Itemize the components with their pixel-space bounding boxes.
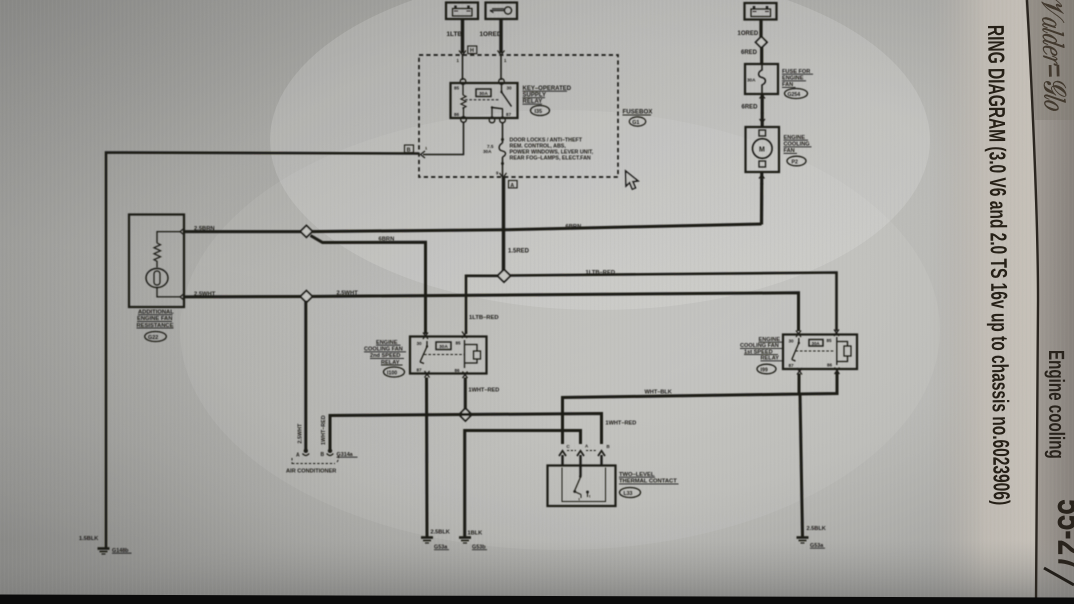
label 2.5WHT left bbox=[194, 291, 216, 297]
wire 2.5BLK relay to ground right bbox=[800, 394, 803, 537]
svg-text:1BLK: 1BLK bbox=[468, 531, 483, 537]
wire 6RED fuse to motor bbox=[760, 94, 766, 127]
svg-text:55-27: 55-27 bbox=[1049, 499, 1074, 571]
wire ground thermalA to G53b bbox=[465, 431, 581, 537]
svg-text:2.5WHT: 2.5WHT bbox=[337, 290, 359, 296]
relay I100 engine cooling fan 2nd speed bbox=[410, 332, 487, 379]
svg-text:2.5WHT: 2.5WHT bbox=[194, 291, 216, 297]
label 2.5WHT right bbox=[337, 290, 359, 296]
svg-text:I35: I35 bbox=[535, 109, 543, 115]
pin 1 labels bbox=[457, 58, 508, 63]
ground G53b bbox=[459, 538, 487, 551]
label 2.5BLK bbox=[431, 530, 450, 536]
ground G53a right bbox=[797, 538, 826, 550]
svg-text:Engine cooling: Engine cooling bbox=[1043, 350, 1068, 459]
thermal contact L33 box bbox=[548, 466, 616, 507]
text block door locks bbox=[510, 138, 594, 162]
svg-text:1WHT–RED: 1WHT–RED bbox=[321, 415, 327, 445]
label 1BLK bbox=[468, 531, 483, 537]
oval P2 bbox=[787, 156, 806, 166]
wire 1ORED key down bbox=[499, 19, 502, 53]
wire 6RED to fuse bbox=[760, 47, 763, 65]
svg-text:87: 87 bbox=[506, 112, 512, 117]
node diamond D4 bbox=[459, 408, 472, 421]
node diamond D3 bbox=[300, 291, 312, 303]
svg-text:85: 85 bbox=[456, 341, 462, 346]
svg-text:86: 86 bbox=[455, 368, 461, 373]
wire relay87 down with fuse bbox=[499, 123, 505, 178]
fuse for engine fan box bbox=[745, 64, 778, 94]
svg-text:6RED: 6RED bbox=[741, 50, 758, 56]
wire 1ORED right bbox=[759, 20, 762, 39]
chevron at fusebox bottom exit bbox=[500, 173, 507, 178]
svg-text:𝒱𝑎𝑙𝑑𝑒𝑟=𝒢𝑙𝑜: 𝒱𝑎𝑙𝑑𝑒𝑟=𝒢𝑙𝑜 bbox=[1035, 0, 1073, 112]
wire 6BRN motor to resistor bbox=[185, 224, 762, 232]
wire into relay from key bbox=[500, 55, 502, 80]
svg-text:G22: G22 bbox=[148, 335, 158, 341]
svg-text:30A: 30A bbox=[439, 344, 448, 350]
svg-text:AIR CONDITIONER: AIR CONDITIONER bbox=[286, 469, 336, 475]
svg-text:30A: 30A bbox=[479, 91, 488, 97]
svg-text:1LTB: 1LTB bbox=[447, 31, 463, 38]
label 1.5BLK bbox=[79, 536, 98, 542]
resistor box G22 bbox=[129, 215, 185, 308]
label 2.5BLK right bbox=[807, 526, 826, 532]
svg-text:P2: P2 bbox=[792, 160, 798, 166]
label 1.5RED bbox=[508, 249, 530, 255]
svg-text:30: 30 bbox=[417, 341, 423, 346]
svg-text:A: A bbox=[296, 453, 300, 459]
label 1WHT-RED vertical at AC bbox=[321, 415, 327, 445]
label 1LTB-RED vertical wire bbox=[469, 315, 499, 321]
svg-text:86: 86 bbox=[827, 363, 833, 368]
key symbol (ignition) bbox=[486, 3, 518, 20]
svg-text:6BRN: 6BRN bbox=[379, 237, 395, 243]
wire 2.5WHT down to AC bbox=[304, 301, 307, 451]
label ADDITIONAL ENGINE FAN RESISTANCE bbox=[137, 310, 175, 329]
wire 1WHT-RED relay86 to D4 bbox=[464, 378, 467, 411]
label 1WHT-RED right of corner bbox=[606, 421, 637, 427]
svg-text:30: 30 bbox=[789, 339, 795, 344]
script logo top right bbox=[1035, 0, 1073, 112]
svg-text:L33: L33 bbox=[624, 491, 633, 497]
wire 1.5BLK long left bbox=[106, 153, 419, 549]
label 6BRN right bbox=[566, 224, 582, 230]
marker A bbox=[509, 181, 518, 189]
svg-text:2.5BLK: 2.5BLK bbox=[431, 530, 450, 536]
oval G22 bbox=[145, 332, 167, 342]
svg-text:G1: G1 bbox=[632, 120, 639, 126]
svg-text:FUSEBOX: FUSEBOX bbox=[623, 109, 654, 116]
wire AC-B horizontal to thermal B bbox=[330, 414, 602, 451]
label ENGINE COOLING FAN 1st SPEED RELAY bbox=[740, 337, 780, 362]
svg-text:M: M bbox=[759, 147, 765, 154]
label 6BRN branch bbox=[379, 237, 395, 243]
svg-text:WHT–BLK: WHT–BLK bbox=[645, 390, 672, 396]
wire 2.5WHT resistor to relay I99 bbox=[185, 293, 799, 331]
label 1ORED bbox=[480, 31, 502, 38]
svg-text:85: 85 bbox=[454, 86, 460, 91]
wire motor down to 6BRN corner bbox=[759, 172, 765, 225]
node diamond D1 bbox=[300, 226, 312, 238]
wire 1LTB battery down bbox=[461, 19, 464, 53]
label 1LTB bbox=[447, 31, 463, 38]
svg-text:1ORED: 1ORED bbox=[738, 31, 759, 37]
svg-text:B: B bbox=[607, 444, 610, 449]
svg-text:1ORED: 1ORED bbox=[480, 31, 502, 38]
label KEY-OPERATED SUPPLY RELAY bbox=[523, 86, 572, 105]
header title WIRING DIAGRAM rotated bbox=[982, 25, 1014, 506]
header Engine cooling rotated bbox=[1043, 350, 1068, 459]
oval I35 bbox=[531, 106, 550, 116]
mouse cursor bbox=[626, 171, 638, 189]
svg-text:REAR FOG–LAMPS, ELECT.FAN: REAR FOG–LAMPS, ELECT.FAN bbox=[510, 156, 591, 162]
svg-text:6BRN: 6BRN bbox=[566, 224, 582, 230]
wire WHT-BLK thermalC to relay I99 bbox=[563, 372, 838, 445]
relay I99 engine cooling fan 1st speed bbox=[783, 330, 857, 375]
svg-text:85: 85 bbox=[827, 338, 833, 343]
svg-text:1LTB–RED: 1LTB–RED bbox=[469, 315, 499, 321]
thermal contact connector pins bbox=[559, 444, 610, 477]
engine cooling fan motor P2 bbox=[746, 127, 780, 172]
svg-text:A: A bbox=[510, 183, 514, 189]
page number 55-27 rotated bbox=[1049, 499, 1074, 571]
label 1ORED right bbox=[738, 31, 759, 37]
wire relay86 to marker B bbox=[423, 123, 464, 155]
svg-text:30A: 30A bbox=[812, 341, 821, 346]
fusebox G1 dashed border bbox=[419, 55, 618, 177]
label 2.5BRN bbox=[194, 226, 215, 232]
marker B bbox=[405, 145, 429, 153]
svg-text:1WHT–RED: 1WHT–RED bbox=[606, 421, 637, 427]
svg-text:B: B bbox=[321, 452, 325, 458]
svg-text:1.5BLK: 1.5BLK bbox=[79, 536, 98, 542]
node diamond D2 bbox=[498, 270, 511, 283]
wire 1.5RED vertical bbox=[502, 177, 505, 272]
svg-text:87: 87 bbox=[789, 363, 795, 368]
svg-text:30A: 30A bbox=[483, 149, 492, 154]
svg-text:30A: 30A bbox=[747, 78, 756, 83]
oval L33 bbox=[620, 488, 641, 498]
label 2.5WHT vertical bbox=[298, 423, 304, 443]
svg-text:2.5BRN: 2.5BRN bbox=[194, 226, 215, 232]
svg-text:1LTB–RED: 1LTB–RED bbox=[586, 270, 616, 276]
marker H bbox=[468, 46, 477, 54]
label 1LTB-RED right bbox=[586, 270, 616, 276]
bottom black bar bbox=[0, 595, 1074, 604]
wire into relay from battery bbox=[462, 55, 464, 80]
diagram ink bbox=[79, 3, 857, 555]
battery symbol top-right bbox=[745, 3, 777, 20]
svg-text:1.5RED: 1.5RED bbox=[508, 249, 530, 255]
relay I35 key-operated supply relay bbox=[451, 79, 518, 123]
label TWO-LEVEL THERMAL CONTACT bbox=[619, 472, 677, 485]
connector chevrons at fusebox top bbox=[459, 51, 505, 56]
connector chevron at B bbox=[421, 151, 426, 158]
ground G53a left bbox=[421, 538, 449, 551]
wire 6BRN branch to relay I100 bbox=[311, 236, 426, 335]
svg-text:30: 30 bbox=[507, 86, 513, 91]
svg-text:2.5BLK: 2.5BLK bbox=[807, 526, 826, 532]
svg-text:2.5WHT: 2.5WHT bbox=[298, 423, 304, 443]
labels 7.5A 30A bbox=[483, 144, 494, 154]
svg-text:I99: I99 bbox=[761, 368, 768, 374]
wire 2.5BLK relay87 to ground bbox=[425, 378, 429, 537]
oval G1 bbox=[629, 117, 645, 126]
node diamond D5 bbox=[756, 37, 767, 48]
svg-text:H: H bbox=[470, 48, 474, 54]
wire 1LTB-RED left branch bbox=[466, 276, 499, 334]
svg-text:86: 86 bbox=[454, 112, 460, 117]
label AIR CONDITIONER bbox=[286, 469, 336, 475]
air conditioner connector bbox=[292, 449, 358, 464]
header rule line bbox=[1027, 0, 1038, 604]
label ENGINE COOLING FAN (motor) bbox=[784, 135, 810, 154]
oval G254 bbox=[785, 89, 808, 99]
oval I100 bbox=[384, 367, 405, 377]
label FUSEBOX bbox=[623, 109, 654, 116]
pin 9 label bbox=[496, 171, 499, 176]
label ENGINE COOLING FAN 2nd SPEED RELAY bbox=[364, 340, 403, 366]
label 6RED lower bbox=[742, 105, 759, 111]
wire 1LTB-RED right branch bbox=[511, 273, 837, 332]
label FUSE FOR ENGINE FAN bbox=[782, 69, 810, 88]
rule under page number bbox=[1044, 568, 1074, 585]
svg-text:87: 87 bbox=[417, 368, 423, 373]
ground G148b bbox=[98, 548, 132, 554]
svg-text:1WHT–RED: 1WHT–RED bbox=[469, 388, 500, 394]
label WHT-BLK bbox=[645, 390, 672, 396]
label 6RED bbox=[741, 50, 758, 56]
svg-text:I100: I100 bbox=[387, 371, 397, 377]
oval I99 bbox=[757, 364, 776, 374]
svg-text:6RED: 6RED bbox=[742, 105, 759, 111]
battery symbol top-left bbox=[446, 3, 478, 20]
label 1WHT-RED bbox=[469, 388, 500, 394]
svg-text:G254: G254 bbox=[788, 92, 801, 98]
